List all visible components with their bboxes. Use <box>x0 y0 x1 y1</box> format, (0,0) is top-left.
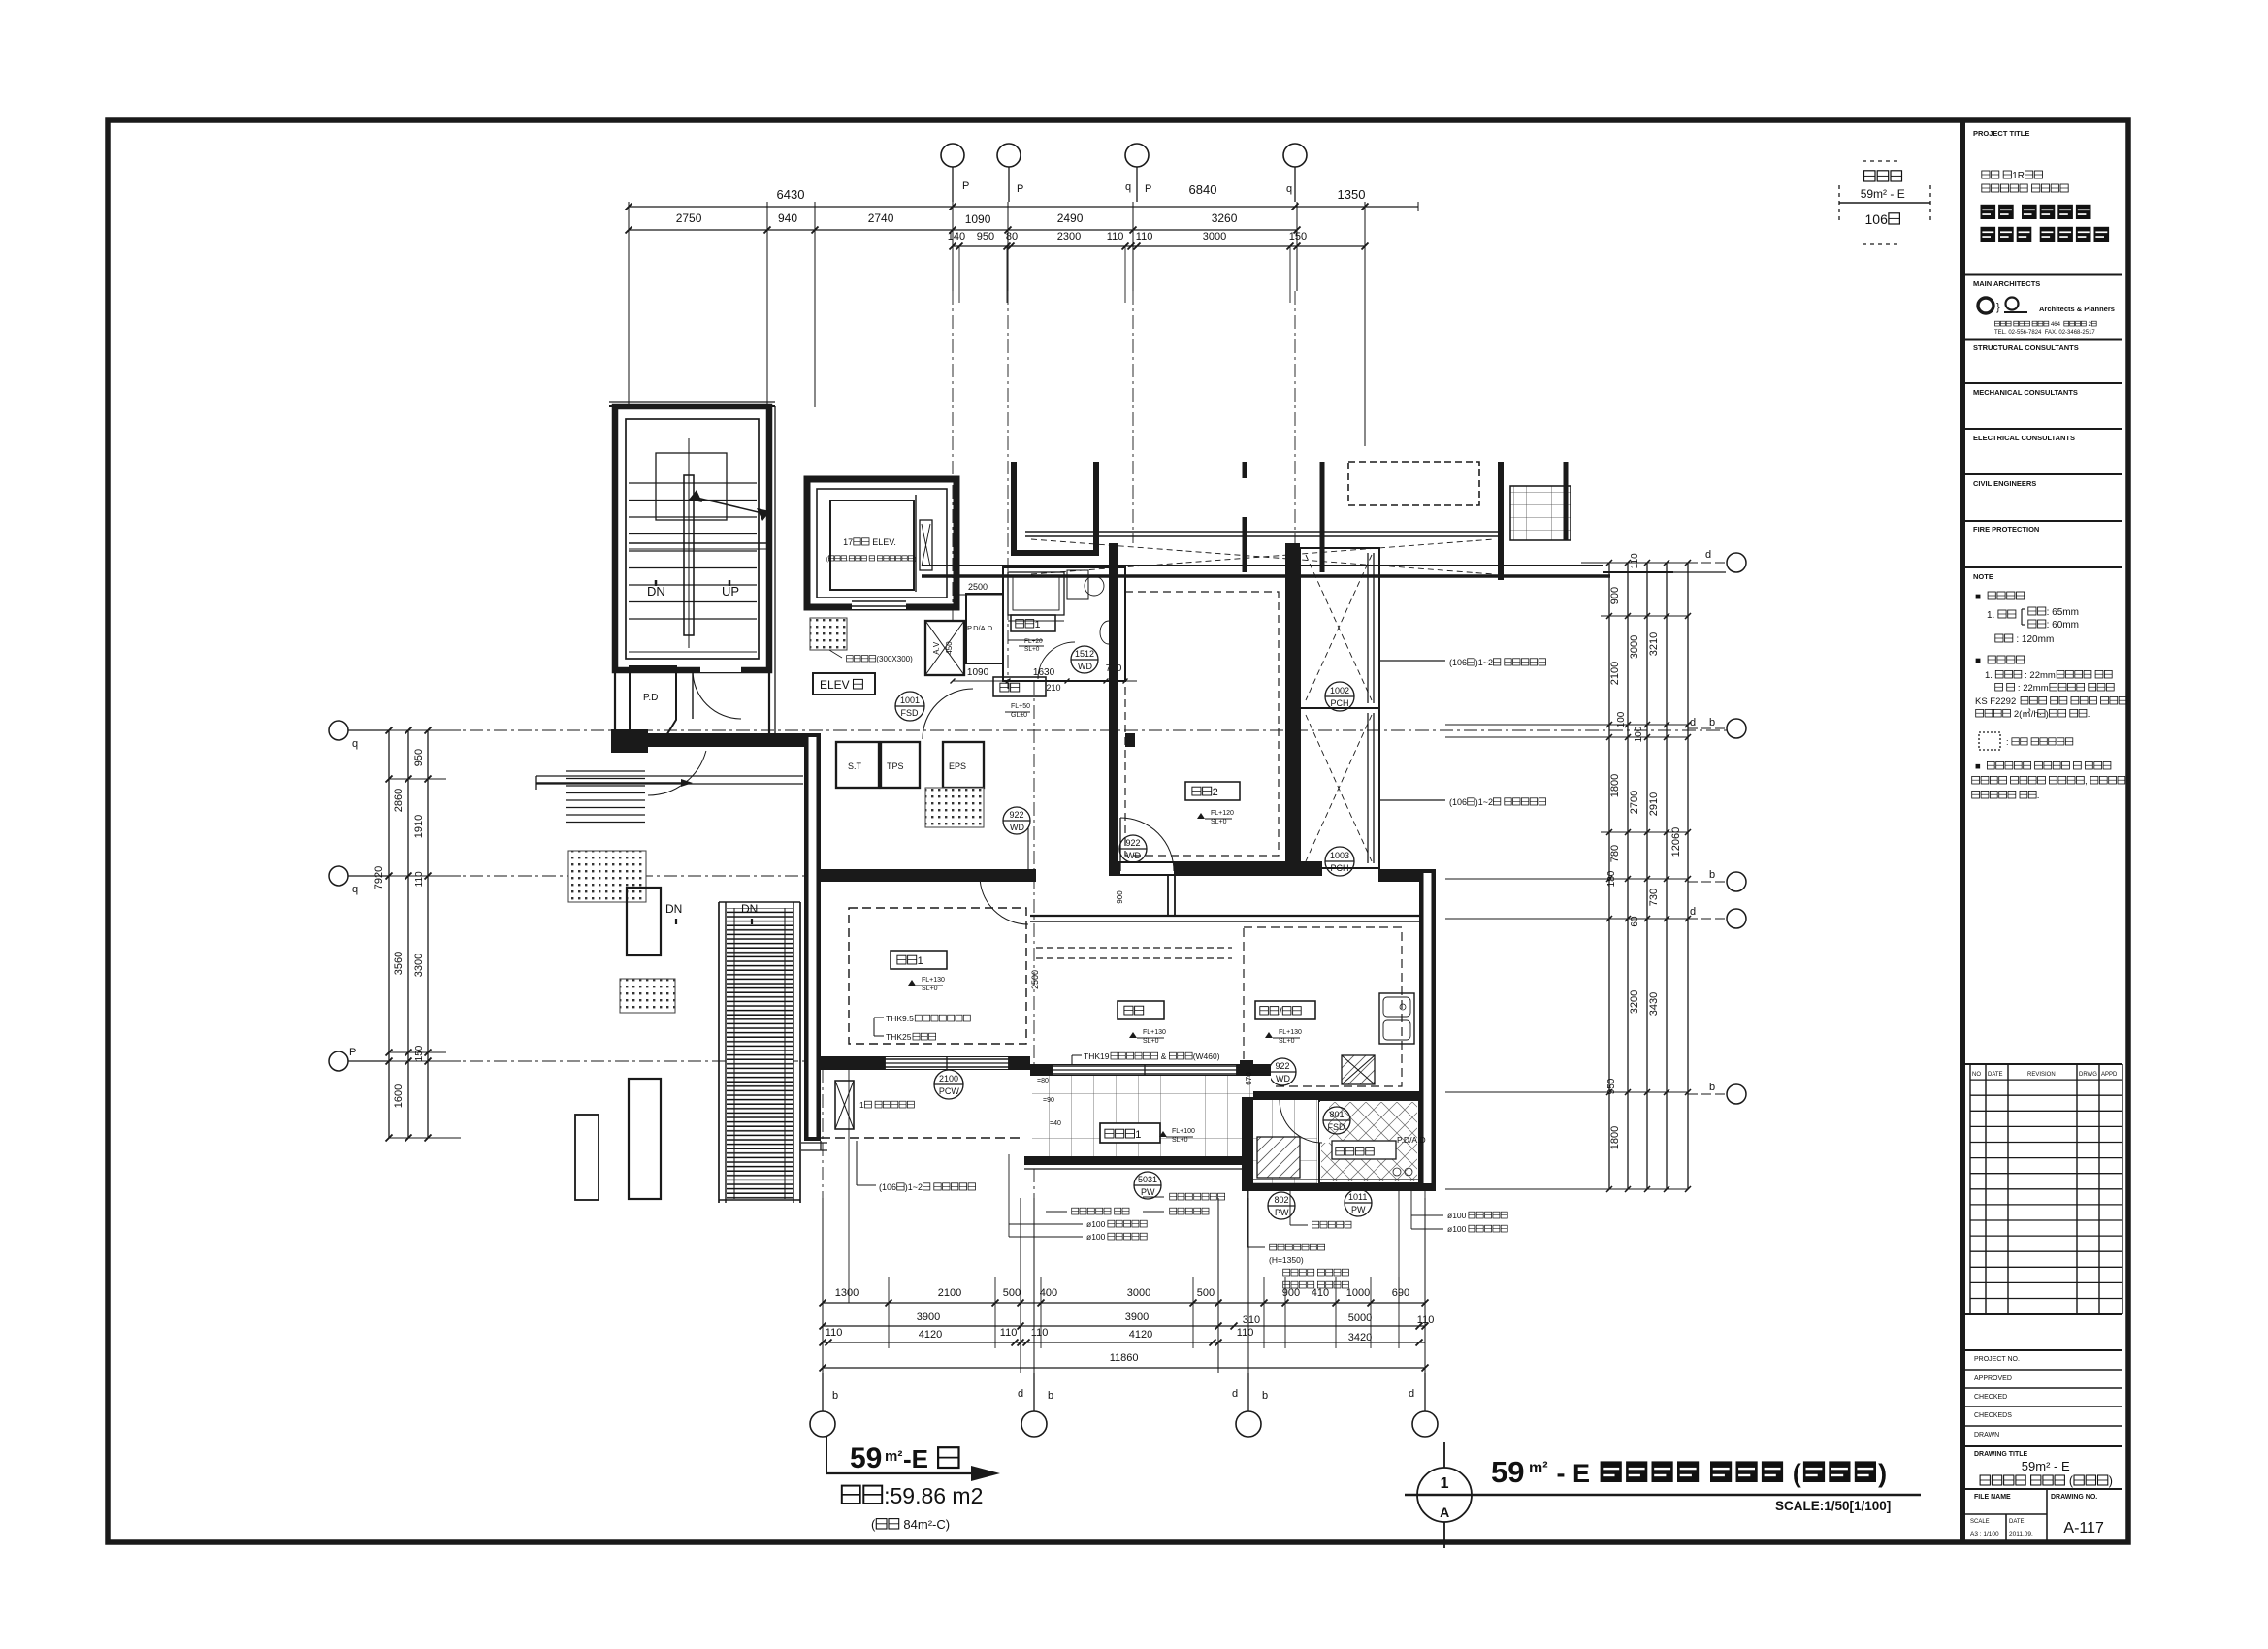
svg-text:3900: 3900 <box>1125 1311 1149 1323</box>
svg-text:4120: 4120 <box>919 1329 942 1341</box>
living leaders <box>1072 1054 1082 1056</box>
svg-text:950: 950 <box>977 231 994 242</box>
kitchen-living divider wall stub <box>1240 1060 1253 1103</box>
P.D/A.D shaft <box>966 594 1003 663</box>
svg-text:A.V: A.V <box>932 641 941 655</box>
neighbor wall U-shape left <box>1014 462 1096 553</box>
svg-text:180: 180 <box>1606 870 1617 887</box>
svg-text:d: d <box>1705 549 1711 561</box>
svg-text:b: b <box>832 1390 838 1402</box>
bathroom label <box>1011 615 1055 631</box>
hall left wall (stair right wall extension) <box>768 406 770 733</box>
svg-text:THK19: THK19 <box>1084 1051 1110 1061</box>
svg-text:=40: =40 <box>1050 1120 1061 1127</box>
svg-text:940: 940 <box>778 211 797 225</box>
lower right utility balcony walls <box>1242 1097 1253 1191</box>
svg-text:5000: 5000 <box>1348 1312 1372 1324</box>
svg-text:■: ■ <box>1975 761 1983 772</box>
bottom dimension row D: 11860 overall <box>823 1367 1425 1369</box>
balcony1 발코니1 floor tile hatch <box>1032 1076 1271 1156</box>
svg-text:1003: 1003 <box>1330 851 1349 860</box>
svg-text:950: 950 <box>413 749 425 766</box>
mini title: 기본형 / 59m2-E / 106동 key plan label <box>1864 171 1876 181</box>
kitchen insulation dashed rect <box>1244 927 1402 1086</box>
ramp left dotted block <box>568 851 646 902</box>
svg-text:q: q <box>352 738 358 750</box>
svg-text:A-117: A-117 <box>2063 1520 2104 1536</box>
bottom dimension row A: 1300 2100 500 400 3000 500 900 410 1000 690 <box>823 1302 1425 1304</box>
stair landing box <box>656 453 727 520</box>
svg-text:1000: 1000 <box>1346 1287 1370 1299</box>
right strip PCH tags <box>1325 682 1354 711</box>
svg-text:3430: 3430 <box>1648 992 1660 1016</box>
service balcony below bedroom1 (open, dashed edge) <box>821 1137 1024 1139</box>
svg-text:): ) <box>2046 709 2049 720</box>
stairwell outer walls <box>615 406 769 670</box>
bottom grid bubbles <box>810 1411 835 1437</box>
svg-text:2910: 2910 <box>1648 792 1660 816</box>
right grid dash-dot lines to bubbles <box>1688 562 1727 564</box>
bottom dimension row B: 3900 3900 310 5000 110 <box>823 1325 1425 1327</box>
svg-text:PROJECT TITLE: PROJECT TITLE <box>1973 129 2029 138</box>
svg-text:: 65mm: : 65mm <box>2047 607 2079 618</box>
bedroom1 wall material leaders <box>874 1017 884 1018</box>
balcony1 label <box>1100 1123 1160 1143</box>
svg-text:110: 110 <box>1630 553 1640 568</box>
svg-text:2300: 2300 <box>1057 231 1081 242</box>
stairwell inner wall line <box>626 419 759 659</box>
svg-text:12060: 12060 <box>1670 827 1682 857</box>
kitchen counter with sink <box>1379 993 1414 1044</box>
svg-text:1.: 1. <box>1985 670 1995 681</box>
svg-text:210: 210 <box>1047 683 1061 693</box>
svg-text::59.86 m2: :59.86 m2 <box>884 1483 983 1508</box>
svg-text:ø100: ø100 <box>1086 1232 1108 1242</box>
svg-text:17: 17 <box>843 537 853 547</box>
right dimension chain lines <box>1608 563 1610 1189</box>
svg-text:500: 500 <box>1003 1287 1021 1299</box>
svg-text:■: ■ <box>1975 656 1984 666</box>
hall-to-unit door arc and FSD tag <box>923 689 973 739</box>
svg-text:P: P <box>349 1047 356 1058</box>
svg-text:FL+130: FL+130 <box>1143 1029 1166 1036</box>
svg-text:SL+0: SL+0 <box>1172 1137 1188 1144</box>
grid dash-dot vertical through bath and living <box>1033 681 1035 1072</box>
left grid dash-dot lines into plan <box>348 729 1727 731</box>
svg-text:150: 150 <box>414 1045 425 1061</box>
living curtain box dashed lines <box>1036 947 1232 949</box>
svg-text:SCALE:1/50[1/100]: SCALE:1/50[1/100] <box>1775 1499 1891 1513</box>
neighbor wall right vertical <box>1498 462 1504 580</box>
svg-text:110: 110 <box>414 871 425 887</box>
svg-text:6430: 6430 <box>777 187 805 202</box>
bottom window tags PW <box>1134 1172 1161 1199</box>
svg-text:950: 950 <box>1606 1078 1617 1094</box>
title block left border <box>1960 120 1965 1542</box>
svg-text:1800: 1800 <box>1609 774 1621 797</box>
svg-text:110: 110 <box>826 1327 843 1339</box>
unit top wall below hall <box>611 729 648 753</box>
svg-text:150: 150 <box>1289 231 1307 242</box>
svg-text:d: d <box>1409 1388 1414 1400</box>
bottom dimension short extension comb <box>888 1277 890 1348</box>
svg-text:110: 110 <box>1031 1327 1049 1339</box>
elevator cab <box>830 501 914 590</box>
sheet border frame <box>108 120 2128 1542</box>
svg-text:): ) <box>2109 1474 2113 1488</box>
svg-text:FL+120: FL+120 <box>1211 810 1234 817</box>
svg-text:110: 110 <box>1107 231 1124 242</box>
bottom grid dash-dot lines ascending into plan <box>822 1070 824 1198</box>
svg-text:2750: 2750 <box>676 211 702 225</box>
svg-text:2500: 2500 <box>968 582 988 592</box>
svg-text:TPS: TPS <box>887 761 904 771</box>
svg-text:900: 900 <box>1116 890 1124 904</box>
svg-text:q: q <box>1286 183 1292 195</box>
svg-text:=80: =80 <box>1037 1078 1049 1084</box>
svg-text:: 22mm: : 22mm <box>2015 683 2048 694</box>
svg-text:2100: 2100 <box>1609 662 1621 685</box>
svg-text:A: A <box>1440 1504 1449 1520</box>
svg-text:DRAWING TITLE: DRAWING TITLE <box>1974 1451 2028 1458</box>
svg-text:110: 110 <box>1237 1327 1254 1339</box>
svg-text:FSD: FSD <box>901 708 920 718</box>
svg-text:A3 : 1/100: A3 : 1/100 <box>1970 1531 1999 1537</box>
svg-text:3210: 3210 <box>1648 632 1660 656</box>
elevator shaft walls <box>807 479 956 607</box>
svg-text:110: 110 <box>1136 231 1153 242</box>
top dimension short extension comb <box>958 246 960 303</box>
svg-text:11860: 11860 <box>1110 1352 1139 1364</box>
svg-text:P.D/A.D: P.D/A.D <box>967 624 993 632</box>
service balcony step lines <box>801 1142 827 1144</box>
P.D shaft box below stair <box>630 666 676 745</box>
svg-text:THK9.5: THK9.5 <box>886 1014 914 1023</box>
svg-text:780: 780 <box>1609 845 1621 862</box>
left dimension extension lines <box>389 729 461 731</box>
svg-text:)1~2: )1~2 <box>1475 797 1493 807</box>
svg-text:ELEV.: ELEV. <box>870 537 896 547</box>
svg-text:59m² - E: 59m² - E <box>1861 187 1905 201</box>
svg-text:450: 450 <box>945 641 954 655</box>
right strip window lines <box>1373 553 1375 703</box>
svg-text:3420: 3420 <box>1348 1332 1372 1343</box>
stair break line with arrows <box>693 497 766 514</box>
svg-text:802: 802 <box>1275 1195 1289 1205</box>
svg-text:: 60mm: : 60mm <box>2047 620 2079 630</box>
svg-text:1011: 1011 <box>1348 1192 1367 1202</box>
kitchen right outer wall <box>1419 869 1436 1191</box>
현관 entrance label <box>993 677 1046 696</box>
svg-text:922: 922 <box>1276 1061 1290 1071</box>
bathroom window tag WD <box>1071 646 1098 673</box>
svg-text:1910: 1910 <box>413 815 425 838</box>
corridor door arc at unit entry wall <box>648 751 706 795</box>
title block: PROJECT NO row <box>1965 1349 2122 1351</box>
bottom leader texts left <box>1072 1208 1079 1214</box>
svg-text:THK25: THK25 <box>886 1032 912 1042</box>
svg-text:60: 60 <box>1630 916 1640 927</box>
svg-text:1R: 1R <box>2012 171 2025 181</box>
svg-text:q: q <box>352 884 358 895</box>
대피공간 label <box>1332 1141 1396 1159</box>
title block: SCALE / DATE cells <box>2005 1514 2007 1544</box>
svg-text:DRAWN: DRAWN <box>1974 1432 1999 1439</box>
svg-text:,: , <box>847 556 849 563</box>
bedroom1 door window tag <box>1003 807 1030 834</box>
left stub wall small <box>575 1115 599 1200</box>
svg-text:REVISION: REVISION <box>2027 1072 2056 1078</box>
left small rect box lower <box>629 1079 661 1199</box>
svg-text:2740: 2740 <box>868 211 894 225</box>
svg-text:APPD: APPD <box>2101 1072 2118 1078</box>
right strip balcony dashed diagonals <box>1306 555 1372 700</box>
svg-text:1.: 1. <box>1987 610 1997 621</box>
washer box hatch <box>1257 1137 1300 1178</box>
balcony planting callout leader 2 <box>1379 799 1445 801</box>
svg-text:)1~2: )1~2 <box>905 1182 923 1192</box>
stair treads <box>629 482 757 484</box>
top grid bubbles <box>941 144 964 167</box>
svg-text:3560: 3560 <box>393 952 405 975</box>
svg-text:DATE: DATE <box>2009 1519 2025 1525</box>
svg-text:100: 100 <box>1616 711 1627 727</box>
svg-text:1350: 1350 <box>1338 187 1366 202</box>
kitchen window tag WD <box>1269 1058 1296 1085</box>
bathroom walls <box>1003 567 1125 681</box>
svg-text:2100: 2100 <box>938 1287 961 1299</box>
svg-text:922: 922 <box>1010 810 1024 820</box>
svg-text:}: } <box>1996 302 2000 313</box>
svg-text:UP: UP <box>722 584 739 598</box>
svg-text:TEL. 02-556-7824 FAX. 02-3468: TEL. 02-556-7824 FAX. 02-3468-2517 <box>1994 330 2095 336</box>
svg-text:ø100: ø100 <box>1086 1219 1108 1229</box>
bedroom2 insulation dashed line <box>1125 592 1279 856</box>
svg-text:2(㎥/h·: 2(㎥/h· <box>2011 708 2042 720</box>
bedroom1 room dim 2500 <box>1030 970 1040 989</box>
elevator door opening <box>852 600 906 609</box>
hall tactile dotted block <box>810 618 847 650</box>
svg-text:S.T: S.T <box>848 761 862 771</box>
neighbor parapet double line <box>1025 531 1499 533</box>
ramp top entry treads <box>566 770 645 772</box>
svg-text::: : <box>2006 737 2011 747</box>
svg-text:.: . <box>2088 709 2090 720</box>
svg-text:PCH: PCH <box>1331 698 1349 708</box>
svg-text:464: 464 <box>2049 322 2063 328</box>
svg-text:CIVIL ENGINEERS: CIVIL ENGINEERS <box>1973 479 2036 488</box>
top dimension row 3: 140 950 80 2300 110 110 3000 150 <box>953 245 1365 247</box>
svg-text:=90: =90 <box>1043 1097 1054 1104</box>
svg-text:1090: 1090 <box>967 667 989 678</box>
svg-text:59: 59 <box>1491 1455 1524 1489</box>
svg-text:WD: WD <box>1078 662 1092 671</box>
neighbor dashed future balcony box <box>1348 462 1479 505</box>
top dimension row 2: 2750 940 2740 1090 2490 3260 <box>629 229 1297 231</box>
bedroom1 door arc <box>980 876 1028 924</box>
svg-text:730: 730 <box>1648 889 1660 906</box>
svg-text:FILE NAME: FILE NAME <box>1974 1494 2011 1501</box>
svg-text:2100: 2100 <box>939 1074 958 1083</box>
bathroom tub <box>1008 572 1064 615</box>
svg-text:): ) <box>1878 1459 1887 1488</box>
svg-text:P.D: P.D <box>643 693 658 703</box>
bedroom2 label <box>1185 782 1240 800</box>
svg-text:3000: 3000 <box>1127 1287 1150 1299</box>
svg-text:MAIN ARCHITECTS: MAIN ARCHITECTS <box>1973 279 2040 288</box>
svg-text:(106: (106 <box>1449 797 1467 807</box>
top dimension extension lines <box>628 202 630 407</box>
svg-text:DRWG: DRWG <box>2079 1072 2097 1078</box>
svg-text:FL+50: FL+50 <box>1011 703 1030 710</box>
svg-text:1300: 1300 <box>835 1287 859 1299</box>
svg-text:FL+100: FL+100 <box>1172 1128 1195 1135</box>
svg-text:SL+0: SL+0 <box>922 986 938 992</box>
svg-text:ø100: ø100 <box>1447 1224 1469 1234</box>
bedroom1 bottom wall with window <box>821 1056 1030 1070</box>
svg-text:b: b <box>1709 717 1715 728</box>
balcony planting callout leader 1 <box>1379 660 1445 662</box>
left corridor boundary lines <box>629 542 769 544</box>
svg-text:PCW: PCW <box>939 1086 960 1096</box>
svg-text:■: ■ <box>1975 592 1984 602</box>
drawing title circle symbol 1/A <box>1417 1468 1472 1522</box>
right grid bubbles <box>1727 553 1746 572</box>
svg-text:1: 1 <box>859 1100 864 1110</box>
svg-text:2860: 2860 <box>393 789 405 812</box>
svg-text:b: b <box>1262 1390 1268 1402</box>
svg-text:FSD: FSD <box>1328 1122 1346 1132</box>
S.T TPS EPS utility boxes <box>836 742 879 788</box>
corridor stub wall between bedroom2 and kitchen <box>1167 876 1169 916</box>
svg-text:b: b <box>1709 1082 1715 1093</box>
right dimension extension lines <box>1581 562 1688 564</box>
svg-text:DN: DN <box>741 902 758 916</box>
bath dimension row 1090 1630 750 210 <box>953 680 1137 682</box>
stair center stringer <box>684 475 694 635</box>
right strip balcony rooms beside bedroom2 <box>1300 548 1379 868</box>
svg-text:2011.09.: 2011.09. <box>2009 1531 2033 1537</box>
bathroom door arc <box>1038 642 1075 679</box>
svg-text:- E: - E <box>1549 1459 1598 1488</box>
living room 거실 label <box>1118 1001 1164 1019</box>
svg-text:1090: 1090 <box>965 212 991 226</box>
svg-text:P.D/A.D: P.D/A.D <box>1397 1135 1426 1145</box>
svg-text:: 120mm: : 120mm <box>2014 634 2055 645</box>
svg-text:FL+130: FL+130 <box>922 977 945 984</box>
svg-text:922: 922 <box>1126 838 1141 848</box>
corridor paving edge lines <box>536 775 803 777</box>
service balcony callout <box>856 1141 858 1185</box>
svg-text:q: q <box>1125 181 1131 193</box>
svg-text:d: d <box>1232 1388 1238 1400</box>
svg-text:3260: 3260 <box>1212 211 1238 225</box>
svg-text:EPS: EPS <box>949 761 966 771</box>
left dimension chain lines <box>388 730 390 1138</box>
svg-text:3000: 3000 <box>1203 231 1226 242</box>
kitchen hatch X square <box>1342 1055 1375 1084</box>
top boundary thick wall of unit row <box>922 565 1603 566</box>
svg-text:FIRE PROTECTION: FIRE PROTECTION <box>1973 525 2039 533</box>
title block: NOTE dotted legend box <box>1979 732 2000 750</box>
ramp strip dense hatch <box>727 908 793 1199</box>
top dimension row 1: 6430 6840 1350 <box>629 206 1418 208</box>
entry arrow line <box>536 782 689 784</box>
svg-text:Architects & Planners: Architects & Planners <box>2039 305 2115 313</box>
svg-text:1: 1 <box>1135 1129 1141 1141</box>
svg-text:ELEV: ELEV <box>820 678 850 692</box>
대피공간 refuge room <box>1319 1100 1419 1183</box>
svg-text:GL±0: GL±0 <box>1011 712 1027 719</box>
svg-text:(106: (106 <box>879 1182 896 1192</box>
svg-text:140: 140 <box>948 231 965 242</box>
svg-text:1: 1 <box>918 955 923 967</box>
bottom dimension row C: 110 4120 110 110 4120 110 3420 <box>823 1342 1425 1343</box>
bottom leader texts right of balcony <box>1170 1193 1177 1200</box>
elevator counterweight compartment <box>915 495 917 592</box>
svg-text:801: 801 <box>1330 1110 1345 1119</box>
svg-text:DRAWING NO.: DRAWING NO. <box>2051 1494 2097 1501</box>
svg-text:1800: 1800 <box>1609 1126 1621 1149</box>
kitchen top wall double line <box>1030 915 1419 917</box>
svg-text:(: ( <box>2065 1474 2073 1488</box>
ramp strip side walls <box>718 902 720 1203</box>
svg-text:P: P <box>962 180 969 192</box>
svg-text:SL+0: SL+0 <box>1024 646 1040 653</box>
bedroom2 door opening white gap + arc <box>1120 863 1174 874</box>
svg-text:P: P <box>1017 183 1023 195</box>
svg-text:3900: 3900 <box>917 1311 940 1323</box>
bedroom1 top wall <box>821 869 1028 882</box>
svg-text:4120: 4120 <box>1129 1329 1152 1341</box>
svg-text:670: 670 <box>1245 1072 1253 1085</box>
svg-text:106: 106 <box>1865 211 1889 227</box>
svg-text:CHECKED: CHECKED <box>1974 1394 2007 1401</box>
neighbor balcony dashed X brace <box>1031 539 1494 574</box>
living bottom wall with balcony window <box>1030 1064 1271 1076</box>
svg-text:6840: 6840 <box>1189 182 1217 197</box>
svg-text:WD: WD <box>1276 1074 1290 1083</box>
neighbor balcony grid hatch square <box>1510 486 1571 540</box>
svg-text:d: d <box>1018 1388 1023 1400</box>
svg-text:PROJECT NO.: PROJECT NO. <box>1974 1356 2020 1363</box>
svg-text:.: . <box>2037 791 2040 801</box>
svg-text:STRUCTURAL CONSULTANTS: STRUCTURAL CONSULTANTS <box>1973 343 2079 352</box>
neighbor wall right vertical 2 <box>1564 462 1569 540</box>
ramp inner rails <box>733 908 735 1199</box>
svg-text:1001: 1001 <box>900 695 920 705</box>
svg-text:1512: 1512 <box>1075 649 1094 659</box>
svg-text:NOTE: NOTE <box>1973 572 1993 581</box>
corridor left wall below stair <box>614 670 616 745</box>
svg-text:59: 59 <box>850 1442 882 1474</box>
svg-text:SL+0: SL+0 <box>1279 1038 1295 1045</box>
bottom leader texts under kitchen <box>1312 1221 1319 1228</box>
bedroom2 침실2 walls <box>1109 543 1118 876</box>
svg-text:(300X300): (300X300) <box>876 655 913 663</box>
kitchen top-right step wall <box>1378 869 1436 882</box>
svg-text:5031: 5031 <box>1138 1175 1157 1184</box>
top grid dash-dot lines descending into plan <box>952 291 954 621</box>
balcony1 bottom wall <box>1024 1156 1271 1165</box>
svg-text:2490: 2490 <box>1057 211 1084 225</box>
svg-text:FL+130: FL+130 <box>1279 1029 1302 1036</box>
svg-text:CHECKEDS: CHECKEDS <box>1974 1412 2012 1419</box>
svg-text:1002: 1002 <box>1330 686 1349 695</box>
svg-text:APPROVED: APPROVED <box>1974 1375 2012 1382</box>
svg-text:2: 2 <box>1213 787 1218 798</box>
svg-text:(: ( <box>1785 1459 1801 1488</box>
